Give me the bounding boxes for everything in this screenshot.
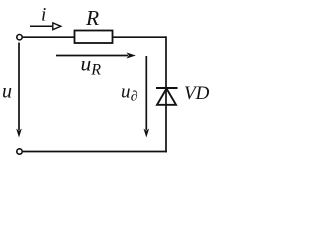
svg-text:u: u	[2, 81, 12, 103]
svg-text:i: i	[41, 5, 46, 26]
svg-text:VD: VD	[184, 83, 210, 104]
svg-text:R: R	[85, 6, 99, 30]
